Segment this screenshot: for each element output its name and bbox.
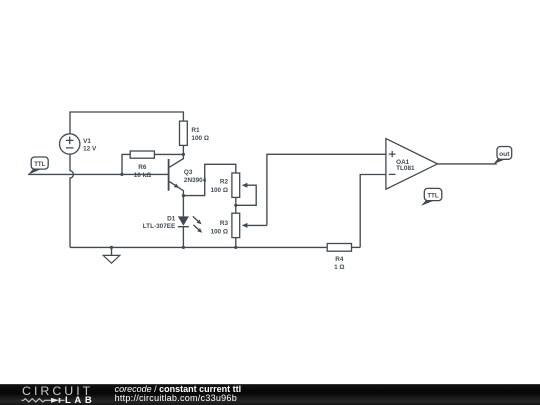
ground [103, 247, 120, 263]
resistor R6 [122, 151, 183, 174]
LED D1 [178, 196, 189, 248]
svg-text:1 Ω: 1 Ω [334, 264, 344, 271]
junction: R2 bottom / R3 top / wiper [234, 204, 237, 207]
wire: V1+ top net to R1 [70, 112, 183, 134]
svg-text:LTL-307EE: LTL-307EE [143, 223, 176, 230]
junction: emitter node [182, 194, 185, 197]
svg-text:100 Ω: 100 Ω [191, 135, 209, 142]
wire: op-amp output net [438, 163, 497, 165]
svg-text:R4: R4 [335, 256, 344, 263]
wire: R4 to op-amp inverting input [360, 175, 386, 248]
svg-text:10 kΩ: 10 kΩ [134, 172, 152, 179]
label R4 1 Ohm [334, 256, 344, 271]
junction: R1 / R6 / collector node [182, 153, 185, 156]
wire: emitter node to R2 top [183, 164, 235, 195]
label Q3 2N3904 [184, 169, 207, 184]
flag out [493, 147, 512, 165]
junction: rail / ground stub [110, 246, 113, 249]
wire: ground rail [70, 246, 327, 248]
svg-text:R3: R3 [220, 220, 229, 227]
svg-text:2N3904: 2N3904 [184, 177, 207, 184]
flag TTL near op-amp [421, 188, 442, 206]
label D1 LTL-307EE [143, 216, 176, 231]
resistor R2 [232, 173, 240, 213]
wire: TTL input base wire [28, 173, 169, 175]
svg-text:Q3: Q3 [184, 169, 193, 176]
junction: base wire / R6 left [120, 173, 123, 176]
junction: rail / R3 bottom [234, 246, 237, 249]
wire: V1- down to ground rail with hop over base wire [70, 154, 73, 247]
resistor R1 [180, 121, 188, 154]
resistor R4 [327, 244, 360, 252]
svg-text:out: out [499, 151, 510, 158]
label V1 12 V [83, 138, 97, 153]
svg-text:TTL: TTL [34, 161, 45, 168]
svg-text:TL081: TL081 [396, 165, 415, 172]
label R1 100 Ohm [191, 127, 209, 142]
voltage source V1 [59, 134, 79, 154]
op-amp OA1 [386, 139, 438, 190]
flag TTL input [28, 157, 48, 175]
R2 wiper arrow loop [236, 183, 256, 206]
svg-text:12 V: 12 V [83, 146, 97, 153]
svg-text:R1: R1 [191, 127, 200, 134]
svg-text:V1: V1 [83, 138, 91, 145]
LED D1 light arrows [193, 216, 202, 232]
svg-text:100 Ω: 100 Ω [210, 228, 228, 235]
junction: rail / LED cathode [182, 246, 185, 249]
label R2 100 Ohm [210, 179, 228, 194]
label R6 10 kOhm [134, 164, 152, 179]
svg-text:R2: R2 [220, 179, 229, 186]
svg-text:TTL: TTL [427, 192, 438, 199]
transistor Q3 [169, 154, 184, 195]
label OA1 TL081 [396, 159, 415, 172]
wire: R3 wiper to op-amp non-inverting input [267, 154, 386, 225]
R3 wiper arrow [242, 223, 267, 228]
svg-text:D1: D1 [167, 216, 176, 223]
svg-text:R6: R6 [138, 164, 147, 171]
label R3 100 Ohm [210, 220, 228, 235]
resistor R3 [232, 213, 240, 247]
svg-text:100 Ω: 100 Ω [210, 187, 228, 194]
